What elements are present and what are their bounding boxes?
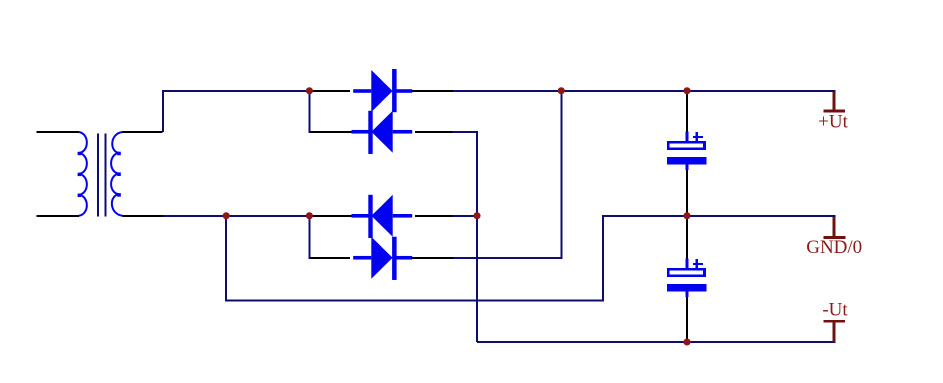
svg-text:+Ut: +Ut	[818, 112, 848, 133]
svg-text:-Ut: -Ut	[822, 300, 848, 321]
svg-text:GND/0: GND/0	[806, 237, 862, 258]
